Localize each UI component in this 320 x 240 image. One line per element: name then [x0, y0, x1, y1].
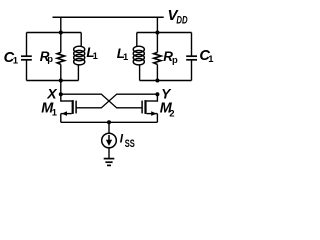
wire drain of M2 to node Y [156, 94, 158, 102]
node Y [155, 92, 159, 96]
ground [104, 159, 115, 166]
svg-text:1: 1 [208, 53, 213, 64]
wire right tank bottom [140, 80, 192, 82]
node junction right tank top [155, 31, 159, 35]
resistor RP left [57, 33, 64, 81]
svg-text:1: 1 [13, 56, 19, 67]
inductor L1 left [74, 33, 85, 81]
label C1 right [199, 48, 213, 64]
transistor M1 [61, 100, 76, 122]
label RP right [163, 49, 178, 65]
label M1 [41, 101, 57, 118]
node junction tail [107, 120, 111, 124]
wire left tank bottom [27, 80, 79, 82]
svg-text:p: p [47, 53, 53, 64]
label M2 [160, 101, 175, 120]
label Y [161, 86, 172, 101]
svg-text:SS: SS [125, 138, 135, 150]
wire left tank to drain of M1 [60, 81, 62, 102]
wire right tank top [137, 32, 192, 34]
label VDD [168, 7, 188, 27]
svg-text:p: p [172, 54, 178, 65]
wire current source to ground [108, 148, 110, 159]
svg-text:2: 2 [169, 109, 174, 120]
node junction left tank bottom [59, 79, 63, 83]
wire gate of M1 to node Y (cross-coupling) [76, 94, 158, 108]
label ISS [120, 132, 135, 151]
resistor RP right [154, 33, 161, 81]
svg-text:X: X [46, 86, 58, 102]
wire tail to current source [108, 122, 110, 133]
node junction left tank top [59, 31, 63, 35]
label C1 left [4, 50, 19, 67]
label X [46, 86, 58, 102]
label RP left [40, 49, 54, 64]
capacitor C1 right [186, 33, 197, 81]
wire left tank top [27, 32, 82, 34]
label L1 right [117, 46, 128, 62]
wire left rail drop [60, 17, 62, 33]
svg-text:1: 1 [93, 50, 98, 61]
wire node X to gate of M2 (cross-coupling) [61, 94, 142, 108]
transistor M2 [142, 100, 157, 122]
node X [59, 92, 63, 96]
svg-text:1: 1 [123, 51, 128, 62]
capacitor C1 left [21, 33, 32, 81]
current source ISS [102, 133, 117, 148]
wire right rail drop [156, 17, 158, 33]
label L1 left [86, 45, 97, 61]
wire tail rail [61, 121, 158, 123]
svg-text:DD: DD [176, 15, 187, 27]
svg-text:1: 1 [52, 107, 57, 118]
inductor L1 right [133, 33, 144, 81]
node junction right tank bottom [155, 79, 159, 83]
wire VDD rail [53, 16, 164, 18]
